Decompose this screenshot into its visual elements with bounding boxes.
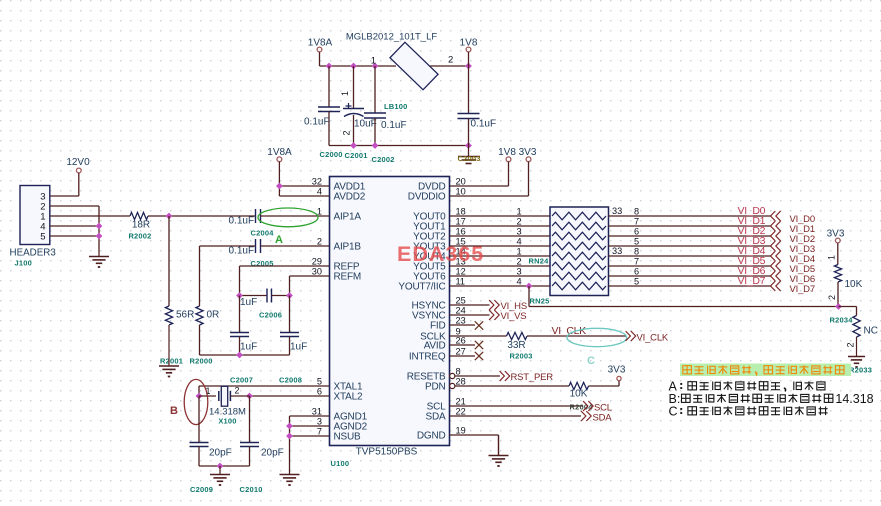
port VI_VS (490, 311, 494, 320)
junction AVDD1 (276, 183, 283, 190)
svg-text:DVDDIO: DVDDIO (408, 192, 446, 203)
wire rail below ref caps (200, 354, 290, 356)
wire IIC pullup run (528, 286, 530, 307)
junction crystal pin2 (246, 393, 253, 400)
wire YOUT0 to network (450, 215, 551, 217)
wire 1V8A bus left segment (320, 65, 397, 67)
svg-text:33: 33 (612, 246, 622, 256)
wire header pin4 (50, 225, 99, 227)
wire DVDDIO to 3V3 (528, 162, 530, 196)
svg-text:1: 1 (517, 247, 522, 257)
network resistor element 5 (552, 252, 606, 260)
svg-text:HEADER3: HEADER3 (10, 248, 57, 259)
ground (R2033) (856, 337, 858, 357)
resistor R2033 NC (853, 316, 860, 338)
note line highlighted (orange): 产品没出图像，请大家帮忙分析 (680, 364, 851, 377)
wire AGND1 (290, 415, 330, 417)
wire rail below crystal caps (199, 465, 250, 467)
capacitor C2001 10uF polarized (353, 66, 355, 109)
svg-text:RN25: RN25 (530, 297, 550, 306)
wire DVDD to 1V8 (508, 162, 510, 186)
svg-text:3V3: 3V3 (519, 147, 537, 158)
svg-text:11: 11 (456, 277, 466, 287)
svg-text:SDA: SDA (426, 412, 446, 423)
wire YOUT5 to network (450, 265, 551, 267)
svg-text:1V8: 1V8 (498, 147, 516, 158)
svg-text:C2008: C2008 (279, 376, 302, 385)
wire HSYNC (450, 304, 490, 306)
svg-text:3: 3 (517, 227, 522, 237)
wire 18R to C2004 (148, 215, 256, 217)
svg-text:1: 1 (517, 207, 522, 217)
svg-text:U100: U100 (331, 459, 350, 468)
port VI_D5 (771, 262, 775, 271)
svg-text:EDA365: EDA365 (397, 242, 484, 266)
svg-text:7: 7 (317, 427, 322, 437)
junction crystal pin1 (196, 393, 203, 400)
svg-text:4: 4 (517, 237, 522, 247)
svg-text:8: 8 (456, 367, 461, 377)
wire YOUT1 to network (450, 225, 551, 227)
junction C2006 left (236, 292, 243, 299)
no-ERC marker FID (475, 321, 483, 329)
junction crystal ground (217, 463, 224, 470)
ground (header) (98, 253, 100, 257)
svg-text:10K: 10K (570, 389, 588, 400)
wire VI_D5 (609, 265, 772, 267)
junction rail C2003 (465, 142, 472, 149)
svg-text:31: 31 (312, 407, 322, 417)
ground (AGND) (289, 474, 291, 476)
svg-text:C2002: C2002 (372, 155, 395, 164)
svg-text:18R: 18R (132, 220, 150, 231)
resistor network RN24/RN25 body (550, 207, 609, 296)
svg-text:4: 4 (317, 187, 322, 197)
svg-text:5: 5 (40, 232, 45, 243)
wire REFP (240, 265, 330, 267)
resistor 10K (PDN pullup) (569, 382, 589, 389)
svg-text:A: A (275, 234, 283, 246)
wire bead output to 1V8 (430, 65, 469, 67)
svg-text:C2003: C2003 (458, 154, 481, 163)
svg-text:12V0: 12V0 (66, 157, 90, 168)
wire ground rail of decoupling caps (329, 145, 469, 147)
svg-text:C2000: C2000 (320, 150, 343, 159)
svg-text:12: 12 (456, 267, 466, 277)
junction rail C2002 (372, 142, 379, 149)
resistor R2001 56R (168, 216, 170, 306)
svg-text:2: 2 (342, 130, 352, 135)
ground (DGND) (498, 435, 500, 456)
svg-text:C2006: C2006 (259, 311, 282, 320)
wire SDA (450, 415, 582, 417)
wire VI_D3 (609, 245, 772, 247)
junction C2006 right (286, 292, 293, 299)
wire VSYNC (450, 314, 490, 316)
svg-text:2: 2 (448, 55, 453, 66)
svg-text:0.1uF: 0.1uF (304, 117, 330, 128)
svg-text:C: C (669, 405, 678, 419)
svg-text:14.318: 14.318 (835, 392, 873, 406)
svg-text:2: 2 (517, 217, 522, 227)
junction pin5 (96, 233, 103, 240)
svg-text:5: 5 (317, 377, 322, 387)
svg-text:1uF: 1uF (240, 297, 257, 308)
svg-text:30: 30 (312, 267, 322, 277)
svg-text:27: 27 (456, 347, 466, 357)
svg-text:R2034: R2034 (830, 316, 854, 325)
svg-text:0.1uF: 0.1uF (381, 120, 407, 131)
svg-text:3V3: 3V3 (827, 229, 845, 240)
svg-text:28: 28 (456, 377, 466, 387)
capacitor C2009 20pF (198, 396, 200, 443)
port SCL (584, 402, 588, 411)
resistor R2034 10K (834, 265, 841, 283)
resistor R2000 0R (199, 246, 201, 306)
wire INTREQ stub (450, 355, 476, 357)
annotation ellipse B (dark red) (184, 379, 208, 424)
network resistor element 3 (552, 232, 606, 240)
wire header pin5 (50, 235, 99, 237)
svg-text:0.1uF: 0.1uF (229, 216, 255, 227)
port VI_D0 (771, 212, 775, 221)
port VI_D1 (771, 222, 775, 231)
ground (56R) (168, 325, 170, 366)
port VI_D2 (771, 232, 775, 241)
svg-text:20pF: 20pF (261, 448, 284, 459)
svg-text:21: 21 (456, 397, 466, 407)
port VI_D3 (771, 242, 775, 251)
svg-text:B: B (170, 405, 178, 417)
capacitor C2008 1uF (289, 296, 291, 333)
svg-text:VI_D7: VI_D7 (790, 284, 815, 295)
svg-text:C2004: C2004 (251, 229, 275, 238)
svg-text:AVDD2: AVDD2 (334, 192, 366, 203)
wire YOUT2 to network (450, 235, 551, 237)
svg-text:8: 8 (634, 247, 639, 257)
wire REFM (290, 275, 330, 277)
svg-text:6: 6 (634, 267, 639, 277)
svg-text:3: 3 (317, 417, 322, 427)
svg-text:R2033: R2033 (849, 366, 872, 375)
junction rail C2001 (350, 142, 357, 149)
svg-text:7: 7 (634, 217, 639, 227)
svg-text:23: 23 (456, 316, 466, 326)
resistor R2003 33R (507, 332, 528, 339)
port VI_D7 (771, 282, 775, 291)
svg-text:25: 25 (456, 296, 466, 306)
svg-text:LB100: LB100 (384, 102, 408, 111)
capacitor C2010 20pF (249, 396, 251, 443)
svg-text:1uF: 1uF (290, 342, 307, 353)
port SDA (582, 412, 586, 421)
wire AGND2 (290, 425, 330, 427)
svg-text:17: 17 (456, 217, 466, 227)
svg-text:19: 19 (456, 426, 466, 436)
svg-text:10: 10 (456, 187, 466, 197)
port VI_CLK (626, 332, 630, 341)
svg-text:24: 24 (456, 306, 466, 316)
junction rail C2007 (236, 352, 243, 359)
svg-text:1: 1 (827, 255, 837, 260)
svg-text:PDN: PDN (425, 382, 446, 393)
svg-text:56R: 56R (176, 310, 194, 321)
wire YOUT4 to network (450, 255, 551, 257)
wire VI_D1 (609, 225, 772, 227)
svg-text:5: 5 (634, 237, 639, 247)
capacitor C2003 0.1uF (468, 66, 470, 114)
capacitor C2004 0.1uF (series) (255, 209, 257, 223)
svg-text:AIP1A: AIP1A (334, 212, 362, 223)
network resistor element 6 (552, 262, 606, 270)
network resistor element 2 (552, 222, 606, 230)
annotation ellipse C (teal) (567, 328, 627, 346)
wire 1V8A to AVDD1/AVDD2 (278, 162, 280, 196)
wire to R2033 (839, 306, 857, 308)
svg-text:2: 2 (234, 386, 239, 396)
svg-text:C2007: C2007 (230, 376, 253, 385)
junction at C2002 top (372, 63, 379, 70)
svg-text:INTREQ: INTREQ (409, 352, 446, 363)
svg-text:AIP1B: AIP1B (334, 242, 362, 253)
svg-text:1: 1 (371, 56, 376, 67)
svg-text:X100: X100 (218, 417, 236, 426)
wire VI_D0 (609, 215, 772, 217)
wire NSUB (290, 435, 330, 437)
svg-text:8: 8 (634, 207, 639, 217)
svg-text:AVID: AVID (424, 341, 446, 352)
svg-text:1uF: 1uF (240, 342, 257, 353)
svg-text:R2003: R2003 (510, 352, 533, 361)
wire header pin1 to 18R (50, 215, 130, 217)
svg-text:7: 7 (634, 257, 639, 267)
capacitor C2005 0.1uF (series) (200, 245, 256, 247)
svg-text:NSUB: NSUB (334, 432, 362, 443)
svg-text:C: C (587, 355, 595, 367)
svg-text:R2000: R2000 (190, 357, 213, 366)
svg-text:26: 26 (456, 336, 466, 346)
svg-text:YOUT7/IIC: YOUT7/IIC (398, 282, 445, 293)
svg-text:RST_PER: RST_PER (511, 372, 554, 383)
svg-text:VI_CLK: VI_CLK (552, 325, 587, 337)
wire FID stub (450, 324, 476, 326)
crystal X100 14.318M (199, 395, 216, 397)
svg-text:MGLB2012_101T_LF: MGLB2012_101T_LF (346, 32, 438, 43)
pin bubble RESETB (450, 373, 455, 378)
svg-text:FID: FID (430, 321, 446, 332)
capacitor C2006 1uF (series) (240, 295, 268, 297)
pin bubble PDN (450, 383, 455, 388)
svg-text:RN24: RN24 (529, 257, 550, 266)
IC U100 TVP5150PBS body (330, 177, 450, 446)
svg-text:C2010: C2010 (240, 485, 263, 494)
ground below C2003 (468, 146, 470, 157)
svg-text:6: 6 (317, 387, 322, 397)
wire XTAL2 (250, 395, 330, 397)
svg-text:1: 1 (317, 207, 322, 217)
no-ERC marker AVID (475, 341, 483, 349)
network resistor element 1 (552, 212, 606, 220)
svg-text:SDA: SDA (593, 413, 613, 424)
ground (crystal) (219, 466, 221, 475)
junction NSUB (286, 433, 293, 440)
svg-text:J100: J100 (15, 259, 33, 268)
svg-text:REFM: REFM (334, 272, 362, 283)
wire YOUT3 to network (450, 245, 551, 247)
wire VI_D6 (609, 275, 772, 277)
capacitor C2002 0.1uF (374, 66, 376, 113)
network resistor element 7 (552, 272, 606, 280)
wire SCL (450, 405, 584, 407)
svg-text:2: 2 (846, 342, 856, 347)
svg-text:R2001: R2001 (160, 357, 183, 366)
svg-text:0.1uF: 0.1uF (229, 246, 255, 257)
network resistor element 8 (552, 282, 606, 290)
svg-text:VI_VS: VI_VS (501, 311, 527, 322)
svg-text:20: 20 (456, 177, 466, 187)
no-ERC marker INTREQ (475, 352, 483, 360)
svg-text:33R: 33R (507, 340, 525, 351)
junction pullup (835, 303, 842, 310)
wire AVID stub (450, 344, 476, 346)
port VI_HS (490, 301, 494, 310)
junction AGND2 (286, 423, 293, 430)
wire 12V0 to header pin3 (78, 173, 80, 196)
svg-text:XTAL2: XTAL2 (334, 392, 363, 403)
svg-text:VI_CLK: VI_CLK (637, 333, 669, 344)
svg-text:TVP5150PBS: TVP5150PBS (356, 447, 418, 458)
svg-text:5: 5 (634, 277, 639, 287)
svg-text:32: 32 (312, 177, 322, 187)
svg-text:C2001: C2001 (345, 151, 368, 160)
network resistor element 4 (552, 242, 606, 250)
junction YOUT7/IIC pullup (526, 283, 533, 290)
svg-text:33: 33 (612, 206, 622, 216)
wire SCLK (450, 335, 507, 337)
annotation ellipse A (green) (258, 208, 318, 227)
svg-text:2: 2 (317, 237, 322, 247)
svg-text:4: 4 (517, 277, 522, 287)
wire PDN (455, 385, 569, 387)
svg-text:C2009: C2009 (190, 485, 213, 494)
wire YOUT6 to network (450, 275, 551, 277)
wire VI_D7 (609, 285, 772, 287)
wire RESETB (455, 375, 500, 377)
svg-text:1: 1 (340, 91, 350, 96)
svg-text:2: 2 (827, 295, 837, 300)
wire 10K to 3V3 (589, 385, 620, 387)
port VI_D4 (771, 252, 775, 261)
svg-text:22: 22 (456, 407, 466, 417)
resistor R2002 18R (130, 212, 148, 219)
port RST_PER (500, 372, 504, 381)
svg-text:20pF: 20pF (209, 448, 232, 459)
svg-text:10uF: 10uF (354, 119, 377, 130)
svg-text:NC: NC (864, 326, 878, 337)
capacitor C2007 1uF (239, 296, 241, 333)
wire DGND (450, 434, 499, 436)
wire 3V3 to R2034 (837, 243, 839, 265)
junction at C2000 top (326, 63, 333, 70)
connector J100 HEADER3 (20, 186, 50, 245)
wire VI_D2 (609, 235, 772, 237)
svg-text:3V3: 3V3 (608, 365, 626, 376)
capacitor C2000 0.1uF (328, 66, 330, 107)
wire YOUT7 to network (450, 285, 551, 287)
wire header pin2 to ground (50, 205, 99, 207)
junction pin4 (96, 223, 103, 230)
svg-text:29: 29 (312, 257, 322, 267)
svg-text:R2002: R2002 (128, 232, 151, 241)
svg-text:16: 16 (456, 227, 466, 237)
junction at 1V8 / C2003 (465, 63, 472, 70)
svg-text:18: 18 (456, 207, 466, 217)
junction at C2001 top (350, 63, 357, 70)
svg-text:DGND: DGND (417, 431, 446, 442)
svg-text:0R: 0R (207, 310, 220, 321)
svg-text:10K: 10K (845, 279, 863, 290)
port VI_D6 (771, 272, 775, 281)
svg-text:VI_D7: VI_D7 (738, 275, 766, 287)
svg-text:0.1uF: 0.1uF (471, 119, 497, 130)
svg-text:2: 2 (517, 257, 522, 267)
junction at 56R top (166, 213, 173, 220)
wire 33R to port (527, 335, 626, 337)
wire VI_D4 (609, 255, 772, 257)
wire XTAL1 (199, 385, 330, 387)
svg-text:6: 6 (634, 227, 639, 237)
svg-text:3: 3 (517, 267, 522, 277)
